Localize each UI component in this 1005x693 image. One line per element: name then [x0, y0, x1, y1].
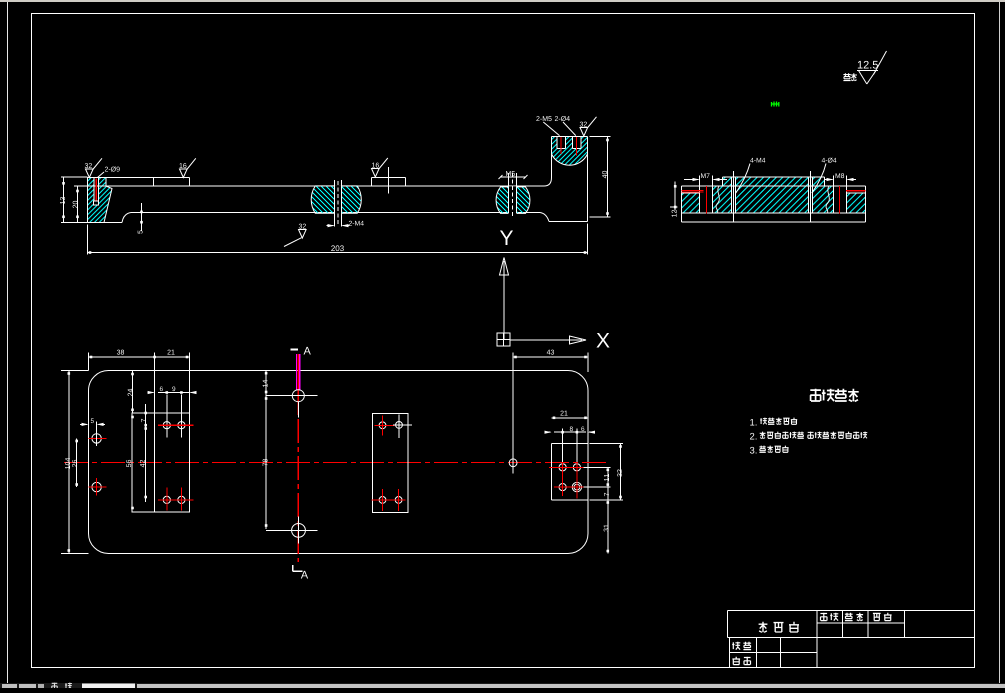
label 2-D9 [105, 166, 120, 171]
dims 8 / 6 right group [546, 431, 551, 433]
note line 1 [750, 419, 756, 426]
dim 104 [61, 370, 89, 372]
dims 38 / 21 top [88, 353, 90, 371]
right hole-group rectangle [551, 444, 553, 501]
dim 42 [144, 427, 147, 430]
center top circle [292, 390, 304, 402]
zhitu [732, 642, 740, 650]
bar bottom line [131, 212, 540, 214]
hole slots right (M8) [833, 176, 835, 214]
section view: hatched left block [88, 178, 113, 223]
part name jiajuti [759, 622, 768, 633]
left group holes [163, 422, 170, 429]
red hole centerlines [706, 186, 708, 214]
dim 56 [131, 416, 134, 419]
main red vertical centerline [297, 391, 299, 416]
break squiggle left [716, 186, 719, 213]
dim 14 (vertical, center) [265, 371, 267, 395]
dim 2-M4 [349, 221, 364, 226]
UCS X axis [510, 339, 570, 341]
label 2-M5 2-D4 with leaders [536, 116, 551, 121]
middle group holes [379, 422, 386, 429]
dim 20 left [74, 185, 88, 187]
tech requirements title [810, 389, 821, 401]
dim 7 [145, 404, 147, 502]
dim 40 [590, 136, 611, 138]
roughness 12.5 symbol [858, 61, 878, 69]
finish 16 at pad2 [372, 163, 379, 168]
hole slots left (M7) [699, 176, 701, 214]
red thread line right [846, 190, 866, 192]
raised center portion [723, 176, 825, 178]
dim M8 [824, 179, 833, 181]
UCS Y label [500, 231, 513, 245]
4-M4 slot lines right [807, 177, 809, 213]
UCS origin square [497, 333, 510, 346]
small green mark [771, 102, 779, 107]
main bar top line [88, 185, 545, 187]
hatched barrel B (M5 boss section) [496, 186, 530, 214]
plate outline (rounded rect) [89, 371, 589, 554]
magenta section line A-A [296, 354, 298, 391]
left pair holes [92, 434, 101, 443]
finish 32 below barrel A [299, 224, 306, 229]
raised end block outline [552, 136, 588, 138]
dim 26 [76, 438, 78, 487]
dim 24 left of rect [132, 371, 134, 414]
dim 43 [587, 353, 589, 373]
red thread lines left [682, 190, 704, 192]
note line 2 [750, 433, 757, 440]
dim 5 step [141, 203, 143, 231]
4-M4 slot lines left [730, 177, 732, 213]
right view outline [682, 185, 866, 187]
dim 11 [584, 466, 611, 468]
left window border [7, 2, 9, 683]
dim 13 left [61, 176, 88, 178]
header shuliang [845, 613, 853, 621]
dim 203 [87, 225, 89, 255]
UCS up arrow [500, 258, 509, 276]
label 4-M4 left [750, 158, 765, 163]
dim 31 lowest [607, 500, 609, 554]
UCS X label [596, 333, 609, 347]
header cailiao [873, 613, 881, 620]
right window border [999, 2, 1001, 683]
shenhe [732, 657, 740, 665]
right step to lower bottom [540, 213, 549, 222]
dims 6 / 9 [148, 392, 154, 394]
middle hole-group rectangle [373, 414, 409, 513]
single hole right-center [509, 459, 517, 467]
title block lines [728, 610, 975, 612]
hatched barrel A (2-M4 boss section) [311, 185, 361, 214]
slots 2-M5 2-D4 [556, 137, 558, 149]
dim 21 right group [552, 417, 589, 419]
bottom tab bar [0, 683, 1005, 688]
finish 32 at end block [580, 122, 587, 127]
note line 3 [750, 447, 757, 454]
dim 32 right [590, 443, 624, 445]
right group holes [559, 464, 566, 471]
left block outline [104, 178, 112, 223]
raised end block (2-M5 2-D4) hatched [552, 137, 588, 166]
finish 32 at left block [85, 163, 92, 168]
top toolbar edge strip [0, 0, 1005, 2]
right view hatched regions [682, 194, 700, 214]
dim 7 lower [607, 487, 609, 500]
drilled hole 2-D9 in left block [93, 178, 95, 201]
qiyu text [843, 73, 850, 80]
center bottom circle [292, 524, 306, 538]
label M5 at barrel B [506, 171, 515, 176]
main red horizontal centerline [64, 461, 606, 463]
finish 16 at pad1 [180, 163, 187, 168]
top pad 2 [372, 177, 406, 179]
section arrow top + A [291, 349, 299, 351]
break squiggle right [826, 186, 829, 213]
top pad (left) [88, 177, 190, 179]
dim 12 right view [670, 206, 678, 208]
dim 5 top-left [80, 423, 87, 425]
header bili [820, 613, 827, 621]
M4 slots blanked [731, 177, 735, 213]
dim M7 [684, 179, 699, 181]
section mark bottom + A [293, 570, 303, 572]
label 4-D4 right [822, 158, 837, 163]
left hole-group rectangle [132, 413, 190, 512]
dim 78 (vertical, center) [265, 395, 267, 529]
